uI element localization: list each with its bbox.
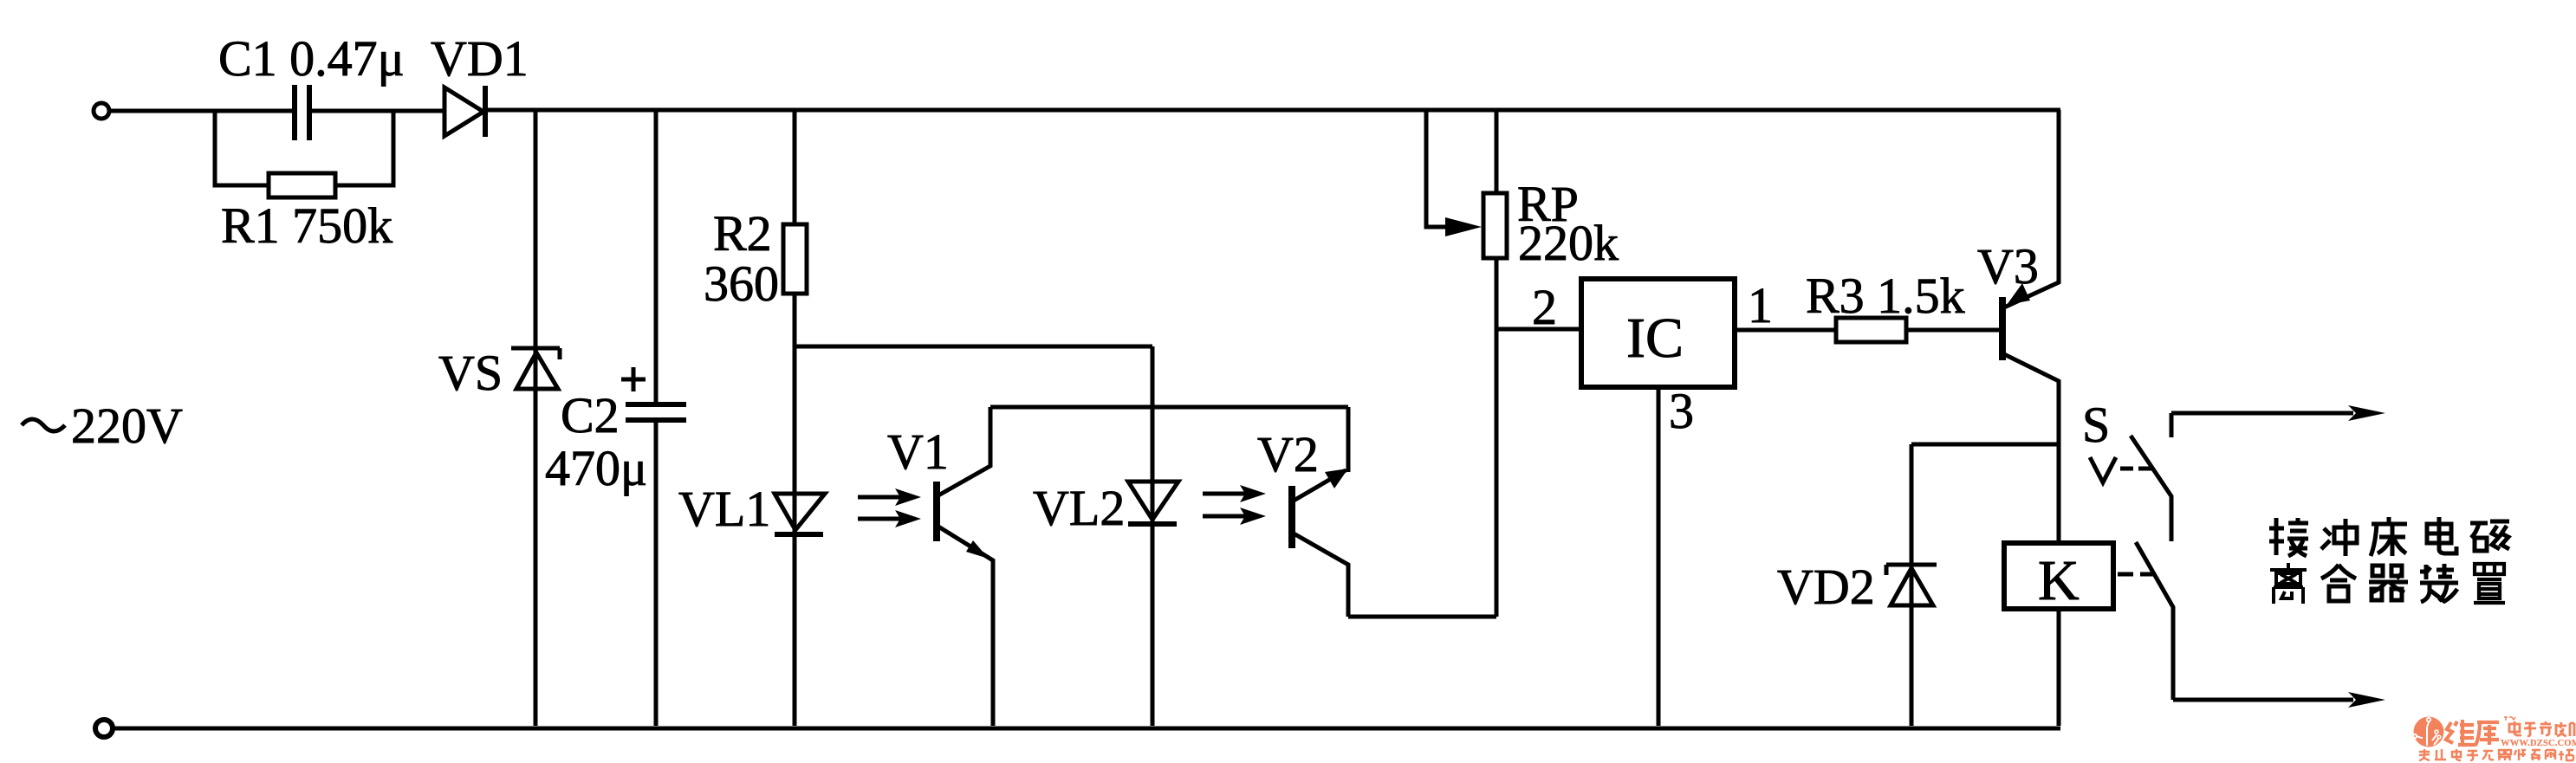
wire pin 2 bbox=[1496, 327, 1581, 332]
LED VL2 bbox=[1151, 346, 1155, 726]
watermark slogan 专业电子元器件交易网站 bbox=[2419, 749, 2573, 760]
svg-text:S: S bbox=[2082, 397, 2110, 453]
svg-text:360: 360 bbox=[704, 255, 779, 312]
watermark logo bbox=[2413, 717, 2576, 761]
svg-text:220k: 220k bbox=[1518, 215, 1619, 271]
svg-text:VL1: VL1 bbox=[678, 481, 770, 537]
watermark circle emblem bbox=[2414, 717, 2444, 747]
svg-text:V2: V2 bbox=[1257, 426, 1319, 482]
svg-text:C1 0.47μ: C1 0.47μ bbox=[218, 30, 405, 87]
LED VL1 bbox=[775, 494, 825, 530]
switch S pole 2 bbox=[2136, 542, 2173, 700]
wire collectors V1-V2 bbox=[990, 405, 1348, 410]
potentiometer RP bbox=[1495, 110, 1499, 193]
svg-text:VS: VS bbox=[438, 345, 503, 401]
wire V2 emitter to RP net bbox=[1348, 615, 1496, 619]
wire R1 bypass right bbox=[335, 111, 393, 185]
watermark text 电子市场网 bbox=[2504, 717, 2574, 736]
op-amp IC bbox=[1581, 279, 1735, 387]
diode VD1 bbox=[444, 87, 483, 136]
resistor R2 bbox=[793, 110, 797, 224]
wire LED branch bbox=[795, 345, 1152, 349]
resistor R1 bbox=[269, 173, 335, 197]
terminal bottom-left bbox=[95, 720, 113, 737]
capacitor C1 bbox=[295, 85, 309, 140]
svg-text:IC: IC bbox=[1626, 307, 1684, 370]
terminal top-left bbox=[94, 103, 109, 119]
diode VD2 bbox=[1886, 565, 1937, 575]
svg-text:V1: V1 bbox=[887, 424, 949, 480]
svg-text:VD1: VD1 bbox=[431, 30, 529, 87]
wire top rail main bbox=[488, 108, 2060, 113]
svg-text:3: 3 bbox=[1669, 383, 1694, 439]
wire pin 3 bbox=[1657, 387, 1661, 726]
wire C1 to VD1 bbox=[312, 109, 444, 113]
svg-text:C2: C2 bbox=[561, 387, 620, 443]
output arrow top bbox=[2171, 411, 2353, 416]
svg-text:VD2: VD2 bbox=[1777, 559, 1875, 615]
svg-text:2: 2 bbox=[1532, 279, 1557, 335]
wire VD2 branch bbox=[1911, 443, 2059, 447]
output arrow bottom bbox=[2173, 698, 2353, 702]
resistor R3 bbox=[1836, 318, 1906, 342]
svg-text:R3 1.5k: R3 1.5k bbox=[1806, 268, 1965, 324]
annotation Chinese text line 1: 接冲床电磁 bbox=[2269, 517, 2509, 556]
wire R3 to V3 base bbox=[1906, 328, 1999, 333]
wire R1 bypass left bbox=[215, 111, 269, 185]
wire top rail left segment bbox=[109, 109, 293, 113]
wire pin 1 bbox=[1735, 328, 1836, 333]
svg-text:470μ: 470μ bbox=[545, 440, 647, 496]
light arrows to V2 bbox=[1203, 492, 1246, 496]
svg-text:1: 1 bbox=[1748, 277, 1773, 333]
RP wiper bbox=[1426, 110, 1445, 227]
svg-text:V3: V3 bbox=[1977, 238, 2039, 294]
svg-text:VL2: VL2 bbox=[1033, 480, 1125, 536]
switch S pole 1 bbox=[2170, 413, 2174, 437]
watermark text 维库 bbox=[2446, 720, 2499, 746]
transistor V3 bbox=[1999, 297, 2006, 360]
svg-text:WWW.DZSC.COM: WWW.DZSC.COM bbox=[2501, 739, 2576, 748]
zener diode VS bbox=[534, 110, 538, 726]
linkage dashes lower bbox=[2118, 572, 2154, 577]
linkage arrow V bbox=[2090, 457, 2116, 482]
phototransistor V2 bbox=[1288, 486, 1295, 548]
wire bottom rail bbox=[113, 727, 2060, 731]
capacitor C2 bbox=[654, 110, 659, 403]
svg-text:R2: R2 bbox=[713, 205, 772, 262]
relay K bbox=[2004, 543, 2113, 609]
phototransistor V1 bbox=[933, 482, 940, 541]
svg-text:R1 750k: R1 750k bbox=[221, 197, 393, 254]
annotation Chinese text line 2: 离合器装置 bbox=[2270, 563, 2505, 604]
label ~220V bbox=[22, 419, 65, 431]
svg-text:220V: 220V bbox=[71, 398, 183, 454]
light arrows to V1 bbox=[858, 495, 901, 500]
linkage dashes upper bbox=[2120, 467, 2151, 471]
wire K to bottom rail bbox=[2057, 609, 2061, 726]
svg-text:K: K bbox=[2038, 549, 2080, 612]
